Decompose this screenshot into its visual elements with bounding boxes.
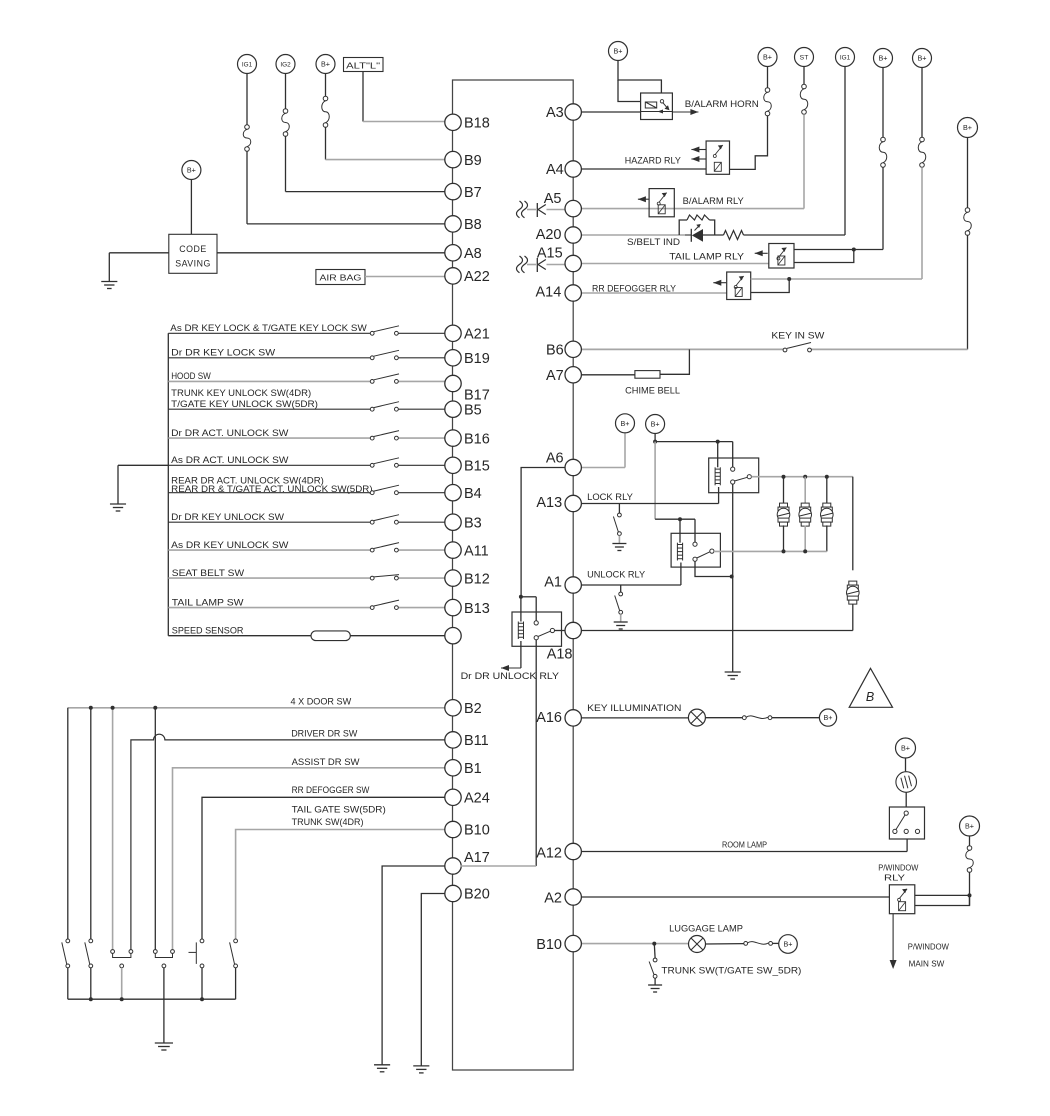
svg-text:TRUNK SW(T/GATE SW_5DR): TRUNK SW(T/GATE SW_5DR) <box>661 966 801 976</box>
ground (unlock switch) <box>614 622 628 629</box>
svg-text:A2: A2 <box>544 891 562 907</box>
wire to actuator 1 <box>783 477 785 504</box>
pin A17 <box>445 850 490 874</box>
svg-text:HAZARD RLY: HAZARD RLY <box>625 156 681 166</box>
wire pin A13 to lock coil <box>581 503 719 505</box>
wire left common bus <box>167 333 169 635</box>
wire unlock relay output <box>714 550 827 552</box>
wire B1 row (assist dr sw) <box>173 768 445 950</box>
svg-text:DRIVER DR SW: DRIVER DR SW <box>291 729 357 739</box>
wire ALT L stem <box>362 72 364 122</box>
svg-text:SEAT BELT SW: SEAT BELT SW <box>172 568 245 578</box>
pin A24 <box>445 789 490 806</box>
junction <box>787 277 791 281</box>
wire to trunk actuator <box>852 477 854 571</box>
wire tail lamp relay to B+ <box>794 249 883 251</box>
wire speed sensor right <box>350 635 444 637</box>
wire stem <box>967 138 969 208</box>
wire loop right <box>710 220 715 235</box>
relay rr defogger <box>727 272 751 300</box>
fuse on IG2 line <box>282 109 290 137</box>
wire B13 row right <box>398 607 444 609</box>
svg-text:AIR BAG: AIR BAG <box>320 273 362 283</box>
svg-text:T/GATE KEY UNLOCK SW(5DR): T/GATE KEY UNLOCK SW(5DR) <box>171 399 318 409</box>
svg-text:REAR DR & T/GATE ACT. UNLOCK S: REAR DR & T/GATE ACT. UNLOCK SW(5DR) <box>171 484 372 494</box>
svg-text:RR DEFOGGER RLY: RR DEFOGGER RLY <box>592 284 676 294</box>
pin B16 <box>445 430 490 447</box>
wire lamp to switch <box>706 943 744 945</box>
wire tail lamp relay coil feed <box>794 250 854 263</box>
svg-text:B7: B7 <box>464 185 482 201</box>
power source IG1 (s/belt) <box>836 48 855 67</box>
wire driver sw to bus <box>121 968 123 999</box>
switch (lock) to ground <box>613 513 621 535</box>
lamp key illumination <box>688 709 705 726</box>
arrow into pin A15 <box>537 258 565 272</box>
svg-text:A4: A4 <box>546 162 564 178</box>
wire B5 row left <box>168 408 370 410</box>
svg-text:A13: A13 <box>536 495 562 511</box>
wire switch to ground <box>620 614 622 621</box>
wire pin A6 right <box>581 467 625 469</box>
junction <box>111 706 115 710</box>
pin A21 <box>445 325 490 342</box>
relay dr dr unlock <box>512 612 562 646</box>
wire up into room lamp switch <box>906 839 908 852</box>
pin A7 <box>546 367 581 384</box>
wire pin A7 to chime bell <box>581 374 635 376</box>
wire dr unlock coil down <box>520 641 522 668</box>
pin A15 <box>537 246 582 272</box>
wire up into unlock coil <box>680 563 682 586</box>
junction <box>803 475 807 479</box>
ground (B20) <box>413 1066 429 1073</box>
LED s/belt indicator <box>685 224 703 242</box>
wire rail down to unlock feed <box>654 442 656 520</box>
contacts (lock relay) <box>731 467 752 484</box>
wire pin A1 to unlock coil <box>581 584 681 586</box>
wire to pin B8 <box>247 223 445 225</box>
svg-text:A20: A20 <box>536 227 562 243</box>
svg-text:A21: A21 <box>464 327 490 343</box>
wire B+ to bulb <box>905 758 907 771</box>
fuse (key in) <box>964 208 972 236</box>
svg-text:B+: B+ <box>965 822 974 831</box>
wire A11 row right <box>398 549 444 551</box>
pin B11 <box>445 732 489 749</box>
svg-text:B10: B10 <box>536 937 562 953</box>
pin B17 <box>445 375 490 403</box>
arrow to b/alarm horn <box>672 109 698 115</box>
svg-text:TRUNK SW(4DR): TRUNK SW(4DR) <box>292 817 364 827</box>
svg-text:A14: A14 <box>535 285 561 301</box>
air bag unit <box>316 270 365 285</box>
pin A20 <box>536 227 582 243</box>
wire unlock relay feed <box>655 518 695 520</box>
wire B+ to code saving <box>190 179 192 234</box>
junction <box>652 942 656 946</box>
wire key in sw to B+ feed <box>811 348 967 350</box>
wire B20 to ground <box>421 894 444 1066</box>
fuse (ST) <box>800 84 808 114</box>
svg-text:B+: B+ <box>918 54 927 63</box>
wire B19 row right <box>398 357 444 359</box>
junction <box>89 706 93 710</box>
wire up into lock coil <box>718 487 720 504</box>
svg-text:A6: A6 <box>546 451 564 467</box>
power source B+ (code saving) <box>182 161 201 180</box>
pin A1 <box>544 575 581 594</box>
ground (lock/unlock relays) <box>725 672 741 679</box>
wire code saving to pin A8 <box>217 252 445 254</box>
svg-text:B: B <box>866 690 874 704</box>
junction <box>852 248 856 252</box>
svg-text:A11: A11 <box>464 543 489 559</box>
svg-text:B6: B6 <box>546 343 564 359</box>
wire relay to B+ (switch) <box>915 894 970 896</box>
svg-text:B+: B+ <box>651 420 660 429</box>
wire B15 row left <box>168 464 370 466</box>
svg-text:B/ALARM RLY: B/ALARM RLY <box>683 196 744 206</box>
pin A18 <box>547 622 582 662</box>
wire pin A16 to key illumination lamp <box>582 717 689 719</box>
svg-text:CODE: CODE <box>179 244 206 254</box>
pin A4 <box>546 161 581 178</box>
wire rail to lock contact <box>732 442 734 468</box>
pin A6 <box>546 451 582 476</box>
switch door 1 <box>62 939 70 968</box>
svg-text:B19: B19 <box>464 351 490 367</box>
wire B+ to pin A6 <box>624 433 626 468</box>
wire switch2 to bus <box>90 968 92 999</box>
wire to dr unlock contact <box>535 597 537 621</box>
wire B17 row right <box>398 380 444 382</box>
svg-text:A5: A5 <box>544 191 562 207</box>
svg-text:B1: B1 <box>464 761 482 777</box>
svg-text:TAIL LAMP SW: TAIL LAMP SW <box>172 597 244 607</box>
wire actuator 3 down <box>826 525 828 551</box>
power source IG1 <box>238 55 257 74</box>
wire pin A5 to ST feed <box>580 208 804 210</box>
wire stem <box>921 68 923 138</box>
wire to pin B7 <box>286 191 445 193</box>
svg-text:Dr DR KEY UNLOCK SW: Dr DR KEY UNLOCK SW <box>171 512 284 522</box>
switch (B16 row) <box>370 431 399 440</box>
wire dr unlock common to A17 <box>535 640 537 866</box>
switch (B4 row) <box>370 485 399 494</box>
switch (B13 row) <box>370 600 399 609</box>
power source B+ (b/alarm horn) <box>609 42 628 61</box>
svg-text:ALT"L": ALT"L" <box>346 61 380 71</box>
pin B8 <box>445 216 482 233</box>
wire switch1 to bus <box>67 968 69 999</box>
power source B+ <box>316 55 335 74</box>
wire bus to ground <box>163 999 165 1043</box>
svg-text:A1: A1 <box>544 575 562 591</box>
svg-text:A7: A7 <box>546 368 564 384</box>
power source B+ (rr defogger) <box>913 49 932 68</box>
wire speed sensor left <box>168 635 311 637</box>
svg-text:LUGGAGE LAMP: LUGGAGE LAMP <box>669 924 743 934</box>
wire A11 row left <box>168 549 370 551</box>
wire B3 row left <box>168 521 370 523</box>
node ALT&quot;L&quot; <box>344 58 384 72</box>
svg-text:B+: B+ <box>621 419 630 428</box>
wire pin A17 to relay common <box>460 865 536 867</box>
wire to actuator 3 <box>826 477 828 504</box>
pin A8 <box>445 245 482 262</box>
wire B17 row left <box>168 380 370 382</box>
marker triangle B <box>849 668 892 707</box>
arrow b/alarm rly output <box>638 196 649 202</box>
wire feed to unlock contact <box>694 519 696 542</box>
wire pin A15 to tail lamp relay <box>580 263 769 265</box>
wire to pin B9 <box>326 159 445 161</box>
pin A2 <box>544 889 581 907</box>
arrow to p/window main sw <box>890 914 897 969</box>
pin A22 <box>445 268 490 285</box>
svg-text:ST: ST <box>800 55 809 62</box>
wire B4 row right <box>398 492 444 494</box>
door lock actuator 1 <box>777 503 790 526</box>
svg-text:CHIME BELL: CHIME BELL <box>625 386 680 396</box>
pin A11 <box>445 542 489 559</box>
svg-text:B20: B20 <box>464 887 490 903</box>
wire stem <box>803 67 805 85</box>
bulb room lamp <box>896 772 917 793</box>
wire trunk actuator to A18 row <box>852 604 854 630</box>
switch trunk <box>230 939 238 968</box>
wire B16 row left <box>168 437 370 439</box>
svg-text:B+: B+ <box>879 54 888 63</box>
speed sensor element <box>311 631 350 641</box>
switch door 2 <box>85 939 93 968</box>
svg-text:As DR KEY LOCK & T/GATE KEY LO: As DR KEY LOCK & T/GATE KEY LOCK SW <box>170 323 367 333</box>
junction <box>825 475 829 479</box>
wire switch to ground <box>618 536 620 544</box>
svg-text:TRUNK KEY UNLOCK SW(4DR): TRUNK KEY UNLOCK SW(4DR) <box>171 388 311 398</box>
wire switch to B+ <box>772 717 820 719</box>
wire B11 row (driver dr sw) with hop <box>131 734 445 949</box>
ground (code saving) <box>101 282 117 289</box>
wire IG1 stem <box>246 74 248 125</box>
junction <box>153 706 157 710</box>
junction <box>519 595 523 599</box>
svg-text:B+: B+ <box>763 53 772 62</box>
wire bus to ground branch <box>118 464 168 466</box>
wire fuse to hazard relay <box>730 116 768 170</box>
fuse on B+ line <box>322 96 330 127</box>
svg-text:P/WINDOW: P/WINDOW <box>908 942 950 952</box>
lamp luggage <box>689 936 706 953</box>
arrow tail lamp rly output <box>755 250 768 256</box>
svg-text:A17: A17 <box>464 850 490 866</box>
wire B6 branch to chime bell <box>660 349 689 374</box>
wire pin A18 to trunk actuator <box>581 630 853 632</box>
wire switch to B+ <box>773 942 779 944</box>
svg-text:A16: A16 <box>536 710 562 726</box>
contacts (dr unlock relay) <box>534 621 554 640</box>
wire lamp to switch <box>705 717 742 719</box>
pin B18 <box>445 114 490 131</box>
wire pin A2 to p/window relay <box>582 896 890 898</box>
wire B+ to b/alarm horn relay (coil) <box>618 80 641 102</box>
pin B2 <box>445 700 482 717</box>
wire bulb to room lamp switch <box>905 792 907 807</box>
svg-text:4 X DOOR SW: 4 X DOOR SW <box>291 697 352 707</box>
pin A5 <box>544 191 582 217</box>
pin B4 <box>445 485 482 502</box>
door lock actuator 3 <box>821 503 834 526</box>
pin B6 <box>546 341 581 358</box>
svg-text:TAIL LAMP RLY: TAIL LAMP RLY <box>669 252 744 262</box>
wire B4 row left <box>168 492 370 494</box>
svg-text:B+: B+ <box>901 744 910 753</box>
coil (unlock relay) <box>677 543 682 561</box>
wire B+ stem <box>325 74 327 97</box>
wire ground bus <box>68 998 236 1000</box>
wire pin B6 to key in sw <box>582 348 783 350</box>
svg-text:B12: B12 <box>464 571 490 587</box>
power source ST <box>795 48 814 67</box>
fuse (rr defogger) <box>918 137 926 167</box>
wire pin A3 to relay <box>580 111 640 113</box>
svg-text:Dr DR ACT. UNLOCK SW: Dr DR ACT. UNLOCK SW <box>171 428 288 438</box>
power source B+ (p/window) <box>960 816 980 836</box>
pin B12 <box>445 570 490 587</box>
ground (switch common) <box>110 504 126 511</box>
svg-text:B10: B10 <box>464 823 490 839</box>
svg-text:SAVING: SAVING <box>175 259 211 269</box>
wire door sw drop 4 <box>154 708 156 950</box>
wire rail to lock coil <box>717 442 719 468</box>
wire B19 row left <box>168 357 370 359</box>
relay lock <box>709 458 759 493</box>
pin B20 <box>445 885 490 902</box>
power source B+ (key in sw) <box>958 118 978 138</box>
junction <box>89 997 93 1001</box>
power source B+ (key illumination) <box>819 709 836 726</box>
connector symbol (A15 from other page) <box>517 256 523 273</box>
svg-text:B13: B13 <box>464 601 490 617</box>
relay b/alarm horn <box>641 93 673 120</box>
ground (door switches) <box>155 1043 173 1050</box>
wire lock relay common to ground <box>732 484 734 671</box>
svg-text:RR DEFOGGER SW: RR DEFOGGER SW <box>292 785 370 795</box>
svg-text:B16: B16 <box>464 431 490 447</box>
junction <box>120 997 124 1001</box>
power source B+ (lock/unlock) <box>646 415 665 434</box>
junction <box>678 517 682 521</box>
chime bell element <box>635 371 660 379</box>
svg-text:IG2: IG2 <box>280 62 291 69</box>
wire door sw drop 3 <box>112 708 114 950</box>
resistor (s/belt series) <box>724 231 744 240</box>
fuse (p/window) <box>966 846 974 873</box>
power source B+ (hazard) <box>758 48 777 67</box>
wire ground drop <box>117 465 119 504</box>
wire to trunk switch <box>653 944 656 958</box>
power source B+ (tail lamp) <box>874 49 893 68</box>
pin B10 <box>445 821 490 838</box>
wire fuse to tail lamp rly <box>882 167 884 249</box>
room lamp switch box <box>889 807 924 839</box>
wire rr defogger relay coil feed <box>751 279 790 293</box>
switch driver door (two contacts) <box>111 950 133 968</box>
wire IG1 to s/belt ind <box>844 67 846 236</box>
svg-text:IG1: IG1 <box>242 62 253 69</box>
junction <box>803 549 807 553</box>
pin A3 <box>546 104 581 121</box>
switch rr defogger (push) <box>189 939 204 968</box>
power source B+ (room lamp) <box>896 738 916 758</box>
wire A21 row right <box>398 332 444 334</box>
svg-text:ASSIST DR SW: ASSIST DR SW <box>292 757 360 767</box>
wire B+ to B9 row <box>325 127 327 159</box>
switch (B12 row) <box>370 575 399 580</box>
svg-text:B+: B+ <box>321 60 330 69</box>
wire ground drop <box>108 253 110 282</box>
switch (B3 row) <box>370 515 399 524</box>
wire door sw drop 2 <box>90 708 92 939</box>
junction <box>782 549 786 553</box>
svg-text:KEY ILLUMINATION: KEY ILLUMINATION <box>587 703 681 713</box>
wire feed to unlock coil <box>679 519 681 543</box>
trunk lock actuator <box>847 581 860 604</box>
fuse on IG1 line <box>243 125 251 152</box>
wire A17 to ground <box>382 866 445 1065</box>
wire to IG1 feed <box>744 234 846 236</box>
wire actuator 2 down <box>804 525 806 551</box>
coil (lock relay) <box>715 467 720 485</box>
svg-text:B4: B4 <box>464 486 482 502</box>
switch (B5 row) <box>370 402 399 411</box>
wire to actuator 2 <box>804 477 806 504</box>
wire B2 row (4 x door sw) <box>68 707 445 709</box>
wire ST to b/alarm rly row <box>803 114 805 208</box>
svg-text:B3: B3 <box>464 515 482 531</box>
wire actuator 1 down <box>783 525 785 551</box>
wire switch to ground <box>654 978 656 984</box>
wire B+ stem <box>654 434 656 442</box>
svg-text:SPEED SENSOR: SPEED SENSOR <box>172 626 244 636</box>
relay hazard <box>706 141 729 174</box>
svg-text:A8: A8 <box>464 246 482 262</box>
wire B5 row right <box>398 408 444 410</box>
svg-text:A18: A18 <box>547 647 573 663</box>
wire pin A4 to hazard relay <box>580 168 706 170</box>
relay b/alarm <box>649 189 674 217</box>
wire feed branch <box>521 596 536 598</box>
switch assist door (two contacts) <box>153 950 174 968</box>
wire B12 row right <box>398 577 444 579</box>
svg-text:B/ALARM HORN: B/ALARM HORN <box>685 99 759 109</box>
power source B+ (A6) <box>616 414 635 433</box>
pin B5 <box>445 401 482 418</box>
fuse (tail lamp) <box>879 137 887 167</box>
svg-text:IG1: IG1 <box>840 55 851 62</box>
ETACS control unit box <box>453 80 574 1070</box>
wire B15 row right <box>398 464 444 466</box>
wire A1 branch to key switch <box>620 585 622 592</box>
pin A12 <box>536 843 581 861</box>
junction <box>782 475 786 479</box>
svg-text:As DR ACT. UNLOCK SW: As DR ACT. UNLOCK SW <box>171 455 288 465</box>
svg-text:P/WINDOW: P/WINDOW <box>878 863 919 873</box>
svg-text:A24: A24 <box>464 791 490 807</box>
wire defogger sw to bus <box>201 968 203 999</box>
pin A14 <box>535 285 581 302</box>
